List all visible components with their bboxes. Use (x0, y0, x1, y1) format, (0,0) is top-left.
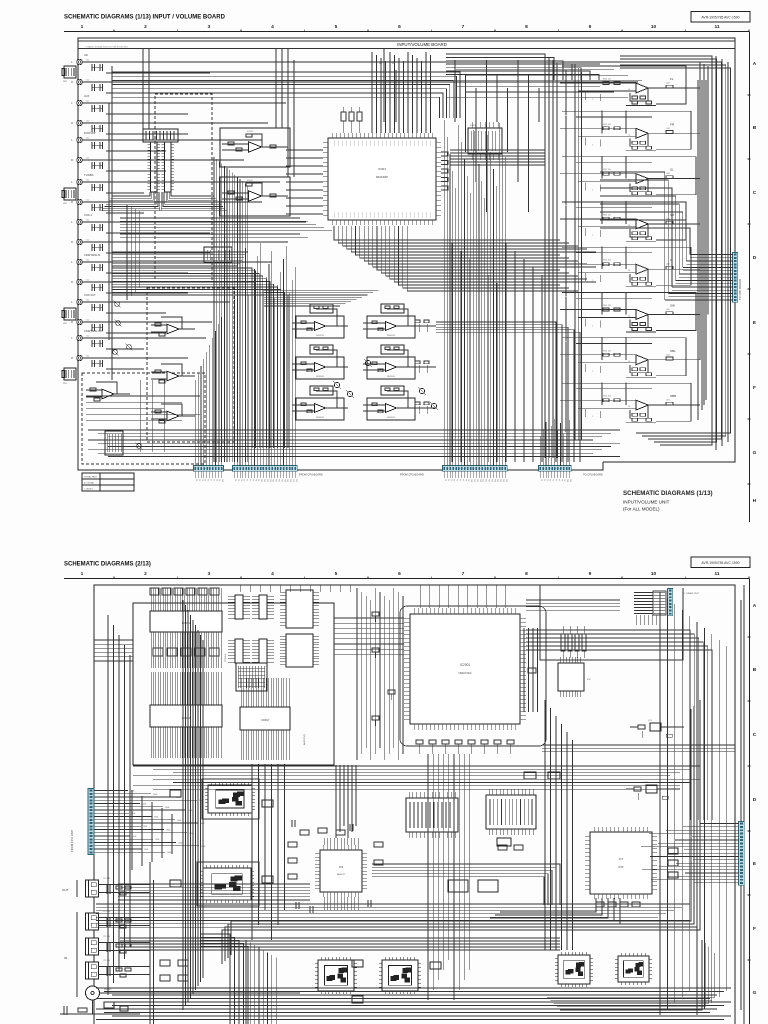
svg-text:P6: P6 (555, 479, 557, 481)
svg-text:P3: P3 (546, 479, 548, 481)
svg-text:SCHEMATIC DIAGRAMS (1/13): SCHEMATIC DIAGRAMS (1/13) (623, 490, 713, 497)
svg-text:P1: P1 (540, 479, 542, 481)
svg-text:HP: HP (379, 63, 383, 65)
svg-text:P5: P5 (456, 479, 458, 481)
svg-text:1: 1 (81, 24, 84, 30)
svg-text:A: A (753, 603, 757, 609)
svg-text:C72 R44: C72 R44 (103, 936, 110, 938)
svg-text:IN: IN (64, 956, 67, 960)
svg-text:SCHEMATIC DIAGRAMS (2/13): SCHEMATIC DIAGRAMS (2/13) (64, 562, 151, 568)
svg-text:P7: P7 (557, 479, 559, 481)
svg-text:A: A (753, 61, 757, 67)
svg-text:AK4527: AK4527 (337, 873, 346, 876)
svg-text:B: B (753, 667, 757, 673)
svg-text:FROM CPU UNIT: FROM CPU UNIT (70, 829, 74, 852)
svg-text:P8: P8 (464, 479, 466, 481)
svg-text:P10: P10 (470, 479, 472, 482)
svg-text:P12: P12 (266, 479, 268, 482)
svg-text:C12: C12 (86, 336, 89, 338)
svg-text:P10: P10 (221, 479, 223, 482)
svg-text:2: 2 (144, 24, 147, 30)
svg-text:P17: P17 (490, 479, 492, 482)
svg-text:L501: L501 (666, 173, 670, 175)
svg-text:P21: P21 (292, 479, 294, 482)
svg-text:B: DIGITAL: B: DIGITAL (84, 482, 95, 485)
svg-text:R561 10K: R561 10K (603, 350, 612, 352)
svg-text:P2: P2 (198, 479, 200, 481)
svg-text:P14: P14 (482, 479, 484, 482)
svg-text:R561 10K: R561 10K (603, 169, 612, 171)
svg-text:L501: L501 (666, 264, 670, 266)
svg-text:P1: P1 (195, 479, 197, 481)
svg-text:G: G (753, 450, 757, 456)
svg-text:IC301: IC301 (378, 167, 386, 171)
svg-text:11: 11 (714, 24, 719, 30)
svg-text:P8: P8 (560, 479, 562, 481)
svg-text:CDR/TAPE IN: CDR/TAPE IN (84, 253, 100, 257)
svg-text:P5: P5 (246, 479, 248, 481)
svg-text:VCR-1: VCR-1 (84, 213, 92, 217)
svg-text:3: 3 (208, 24, 211, 30)
svg-text:4: 4 (271, 571, 274, 577)
svg-text:L501: L501 (666, 83, 670, 85)
svg-text:F: F (753, 385, 756, 391)
svg-text:C12: C12 (86, 138, 89, 140)
svg-text:IC102: IC102 (247, 180, 254, 182)
svg-text:P5: P5 (552, 479, 554, 481)
svg-text:INPUT/VOLUME UNIT: INPUT/VOLUME UNIT (623, 500, 670, 505)
svg-text:8: 8 (525, 571, 528, 577)
svg-text:P16: P16 (488, 479, 490, 482)
svg-text:P10: P10 (260, 479, 262, 482)
svg-text:7: 7 (462, 24, 465, 30)
svg-text:P2: P2 (543, 479, 545, 481)
svg-text:P9: P9 (218, 479, 220, 481)
svg-text:C12: C12 (86, 220, 89, 222)
svg-text:9: 9 (589, 571, 592, 577)
svg-text:NJM2068: NJM2068 (387, 376, 395, 378)
svg-text:C12: C12 (86, 280, 89, 282)
svg-text:R: R (71, 240, 73, 244)
svg-text:SW: SW (670, 304, 675, 308)
svg-text:P13: P13 (479, 479, 481, 482)
svg-text:P4: P4 (243, 479, 245, 481)
svg-text:5: 5 (335, 24, 338, 30)
svg-text:B: B (753, 125, 757, 131)
svg-text:IC7: IC7 (619, 857, 624, 861)
svg-text:R561 10K: R561 10K (603, 396, 612, 398)
svg-text:4: 4 (271, 24, 274, 30)
svg-text:C12: C12 (86, 121, 89, 123)
svg-text:C12: C12 (86, 240, 89, 242)
svg-text:P15: P15 (275, 479, 277, 482)
svg-text:L501: L501 (666, 400, 670, 402)
svg-text:FROM CPU BOARD: FROM CPU BOARD (400, 473, 424, 477)
svg-text:8: 8 (525, 24, 528, 30)
svg-text:IC2001: IC2001 (460, 663, 471, 667)
svg-text:P3: P3 (240, 479, 242, 481)
svg-text:IC201: IC201 (470, 125, 477, 127)
svg-text:3: 3 (208, 571, 211, 577)
svg-text:OUT: OUT (62, 888, 69, 892)
svg-text:C12: C12 (86, 158, 89, 160)
svg-text:NJM2068: NJM2068 (316, 335, 324, 337)
svg-text:P22: P22 (295, 479, 297, 482)
svg-text:SL: SL (670, 168, 674, 172)
svg-text:R: R (71, 200, 73, 204)
svg-text:AUX: AUX (84, 94, 90, 98)
svg-text:XC6SLX: XC6SLX (225, 653, 227, 662)
svg-text:P14: P14 (272, 479, 274, 482)
svg-text:C12: C12 (86, 180, 89, 182)
svg-text:IC6003: IC6003 (261, 719, 269, 722)
svg-text:R: R (71, 158, 73, 162)
svg-text:C72 R44: C72 R44 (103, 878, 110, 880)
svg-text:11: 11 (714, 571, 719, 577)
svg-text:P17: P17 (280, 479, 282, 482)
svg-text:D: D (753, 255, 757, 261)
svg-text:P18: P18 (283, 479, 285, 482)
svg-text:P3: P3 (201, 479, 203, 481)
svg-text:P16: P16 (278, 479, 280, 482)
svg-text:P19: P19 (496, 479, 498, 482)
svg-text:1: 1 (81, 571, 84, 577)
svg-text:C12: C12 (86, 80, 89, 82)
svg-text:NJM2068: NJM2068 (387, 335, 395, 337)
svg-text:C12: C12 (86, 60, 89, 62)
svg-text:L501: L501 (666, 309, 670, 311)
svg-text:NJM2068: NJM2068 (387, 417, 395, 419)
svg-text:IC15: IC15 (648, 720, 652, 722)
svg-text:6: 6 (398, 24, 401, 30)
svg-text:FL: FL (670, 77, 674, 81)
svg-text:R561 10K: R561 10K (603, 79, 612, 81)
svg-text:R561 10K: R561 10K (603, 305, 612, 307)
svg-text:P11: P11 (569, 479, 571, 482)
svg-text:P9: P9 (563, 479, 565, 481)
svg-text:IC102: IC102 (247, 131, 254, 133)
svg-text:R561 10K: R561 10K (603, 124, 612, 126)
svg-text:P2: P2 (447, 479, 449, 481)
svg-text:L501: L501 (666, 128, 670, 130)
svg-text:P1: P1 (444, 479, 446, 481)
svg-text:AK4587VQ: AK4587VQ (303, 734, 306, 745)
svg-text:C12: C12 (86, 356, 89, 358)
svg-text:9: 9 (589, 24, 592, 30)
svg-text:F: F (753, 926, 756, 932)
svg-text:5: 5 (335, 571, 338, 577)
svg-text:P7: P7 (212, 479, 214, 481)
svg-text:DVD/VDP: DVD/VDP (84, 131, 96, 135)
svg-text:(For ALL MODEL): (For ALL MODEL) (623, 507, 660, 512)
svg-text:R561 10K: R561 10K (603, 214, 612, 216)
svg-text:C: C (753, 732, 757, 738)
svg-text:P5: P5 (207, 479, 209, 481)
svg-text:P22: P22 (505, 479, 507, 482)
svg-text:D: D (753, 797, 757, 803)
svg-text:P9: P9 (467, 479, 469, 481)
svg-text:P10: P10 (566, 479, 568, 482)
svg-text:AVR-1905/785 AVC-1590: AVR-1905/785 AVC-1590 (701, 561, 739, 565)
svg-text:C12: C12 (86, 101, 89, 103)
svg-text:R: R (71, 280, 73, 284)
svg-text:TO CPU BOARD: TO CPU BOARD (583, 473, 603, 477)
svg-text:P9: P9 (257, 479, 259, 481)
svg-text:P12: P12 (476, 479, 478, 482)
svg-text:INPUT/VOLUME BOARD: INPUT/VOLUME BOARD (397, 42, 447, 47)
svg-text:C: AUDIO: C: AUDIO (84, 488, 93, 491)
svg-text:R: R (71, 121, 73, 125)
svg-text:P13: P13 (269, 479, 271, 482)
svg-text:SBR: SBR (670, 394, 677, 398)
svg-text:P8: P8 (215, 479, 217, 481)
svg-text:VIDEO DEC: VIDEO DEC (458, 672, 471, 675)
svg-text:IC5: IC5 (339, 865, 344, 869)
svg-text:SCHEMATIC DIAGRAMS (1/13) INP: SCHEMATIC DIAGRAMS (1/13) INPUT / VOLUME… (64, 15, 226, 21)
svg-text:P6: P6 (249, 479, 251, 481)
svg-text:C MARK: SIGNAL ROUTE FOR EU MO: C MARK: SIGNAL ROUTE FOR EU MODEL (85, 46, 129, 49)
svg-text:P7: P7 (251, 479, 253, 481)
svg-text:GD: GD (84, 53, 88, 57)
svg-text:R: R (71, 320, 73, 324)
svg-text:R561 10K: R561 10K (603, 260, 612, 262)
svg-text:L501: L501 (666, 354, 670, 356)
svg-text:C12: C12 (86, 200, 89, 202)
svg-text:P8: P8 (254, 479, 256, 481)
svg-text:DSP: DSP (619, 866, 624, 869)
svg-text:FROM CPU BOARD: FROM CPU BOARD (299, 473, 323, 477)
svg-text:P6: P6 (459, 479, 461, 481)
svg-text:SBL: SBL (670, 349, 676, 353)
svg-text:TO DSP BOARD: TO DSP BOARD (738, 279, 742, 300)
svg-text:C72 R44: C72 R44 (103, 960, 110, 962)
svg-text:P3: P3 (450, 479, 452, 481)
svg-text:P20: P20 (289, 479, 291, 482)
svg-text:P21: P21 (502, 479, 504, 482)
svg-text:C72 R44: C72 R44 (103, 911, 110, 913)
svg-text:P4: P4 (453, 479, 455, 481)
svg-text:SIGNAL PATH: SIGNAL PATH (84, 476, 97, 479)
svg-text:R: R (71, 80, 73, 84)
svg-text:2: 2 (144, 571, 147, 577)
svg-text:C: C (753, 190, 757, 196)
svg-text:M62446FP: M62446FP (376, 176, 389, 179)
svg-text:P6: P6 (210, 479, 212, 481)
svg-text:P4: P4 (549, 479, 551, 481)
svg-text:P15: P15 (485, 479, 487, 482)
svg-text:C12: C12 (86, 300, 89, 302)
svg-text:NJM2068: NJM2068 (316, 417, 324, 419)
svg-text:TO TUNER UNIT: TO TUNER UNIT (682, 593, 699, 595)
svg-text:R: R (71, 356, 73, 360)
svg-text:P2: P2 (237, 479, 239, 481)
svg-text:C12: C12 (86, 260, 89, 262)
svg-text:CDR/TAPE OUT: CDR/TAPE OUT (84, 329, 104, 333)
svg-text:H: H (753, 498, 757, 504)
svg-text:TV/DBS: TV/DBS (84, 173, 94, 177)
svg-text:P18: P18 (493, 479, 495, 482)
svg-text:AVR-1905/785 AVC-1590: AVR-1905/785 AVC-1590 (701, 15, 739, 19)
svg-text:P11: P11 (263, 479, 265, 482)
svg-text:VCR OUT: VCR OUT (84, 293, 96, 297)
svg-text:P1: P1 (234, 479, 236, 481)
svg-text:P7: P7 (461, 479, 463, 481)
svg-text:G: G (753, 990, 757, 996)
svg-text:10: 10 (651, 24, 657, 30)
svg-text:NJM2068: NJM2068 (316, 376, 324, 378)
svg-text:PH: PH (392, 63, 395, 65)
svg-text:7: 7 (462, 571, 465, 577)
svg-text:P11: P11 (473, 479, 475, 482)
svg-text:P19: P19 (286, 479, 288, 482)
svg-text:C12: C12 (86, 320, 89, 322)
svg-text:10: 10 (651, 571, 657, 577)
svg-text:P4: P4 (204, 479, 206, 481)
svg-text:6: 6 (398, 571, 401, 577)
svg-text:P20: P20 (499, 479, 501, 482)
